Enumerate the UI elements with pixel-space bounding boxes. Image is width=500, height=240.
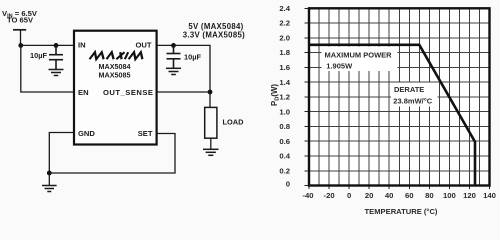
chart x-axis ticks	[309, 186, 490, 190]
svg-text:EN: EN	[78, 88, 89, 97]
svg-text:TEMPERATURE (°C): TEMPERATURE (°C)	[365, 207, 438, 216]
node output capacitor junction	[171, 43, 176, 48]
svg-text:0: 0	[286, 179, 290, 188]
svg-text:80: 80	[425, 191, 434, 200]
x-axis tick labels	[302, 191, 495, 200]
svg-text:DERATE: DERATE	[394, 85, 424, 94]
svg-text:GND: GND	[78, 129, 95, 138]
svg-text:20: 20	[365, 191, 374, 200]
capacitor C2 10uF	[167, 45, 181, 67]
wire to load resistor	[209, 92, 211, 107]
svg-text:2.0: 2.0	[279, 33, 290, 42]
svg-text:120: 120	[463, 191, 476, 200]
wire VIN stub	[20, 30, 22, 46]
wire OUT_SENSE	[157, 91, 210, 93]
svg-text:10µF: 10µF	[30, 51, 47, 60]
svg-text:40: 40	[385, 191, 394, 200]
svg-text:0: 0	[347, 191, 351, 200]
svg-text:SET: SET	[138, 129, 153, 138]
capacitor C1 10uF	[49, 45, 63, 69]
wire load to ground	[210, 138, 212, 149]
svg-text:3.3V (MAX5085): 3.3V (MAX5085)	[183, 30, 245, 39]
svg-text:60: 60	[405, 191, 414, 200]
svg-text:1.2: 1.2	[279, 93, 290, 102]
curve power derating	[309, 45, 475, 186]
terminal VIN T-bar	[13, 29, 26, 31]
chart y-axis ticks	[305, 8, 310, 185]
chart border frame	[309, 8, 490, 185]
node input capacitor junction	[54, 43, 59, 48]
svg-text:MAXIMUM POWER: MAXIMUM POWER	[325, 51, 393, 60]
svg-text:PD(W): PD(W)	[270, 84, 280, 106]
net label VIN = 6.5V TO 65V	[2, 9, 38, 25]
svg-text:2.2: 2.2	[279, 19, 290, 28]
svg-text:1.6: 1.6	[279, 63, 290, 72]
svg-text:0.6: 0.6	[279, 137, 290, 146]
net label 5V / 3.3V outputs	[183, 22, 245, 39]
wire OUT to load node	[157, 45, 210, 92]
svg-text:-40: -40	[302, 191, 313, 200]
y-axis tick labels	[279, 4, 290, 188]
annotation background MAXIMUM POWER	[322, 47, 398, 72]
wire SET to ground node	[49, 134, 175, 174]
ground load	[203, 149, 219, 155]
svg-text:OUT_SENSE: OUT_SENSE	[103, 88, 154, 97]
chart plot area background	[309, 8, 490, 185]
svg-text:IN: IN	[78, 41, 86, 50]
annotation background DERATE	[391, 83, 438, 107]
node VIN junction	[18, 43, 23, 48]
node ground junction	[47, 171, 52, 176]
ground input capacitor	[49, 70, 64, 76]
svg-text:-20: -20	[324, 191, 335, 200]
svg-text:1.4: 1.4	[279, 78, 290, 87]
svg-text:100: 100	[443, 191, 456, 200]
wire VIN to IN pin	[21, 44, 73, 46]
svg-text:1.0: 1.0	[279, 107, 290, 116]
svg-text:1.8: 1.8	[279, 48, 290, 57]
label MAXIMUM POWER 1.905W	[325, 51, 393, 71]
svg-text:LOAD: LOAD	[223, 118, 245, 127]
logo MAXIM	[90, 52, 144, 59]
svg-text:10µF: 10µF	[184, 53, 201, 62]
resistor LOAD	[205, 107, 217, 138]
ground output capacitor	[166, 68, 181, 74]
svg-text:0.4: 0.4	[279, 152, 290, 161]
svg-text:23.8mW/°C: 23.8mW/°C	[393, 97, 432, 106]
IC U1 MAX5084/MAX5085 body	[74, 31, 157, 145]
svg-text:140: 140	[483, 191, 496, 200]
svg-text:0.8: 0.8	[279, 122, 290, 131]
ground main	[42, 186, 57, 192]
chart gridlines	[309, 8, 490, 185]
wire VIN to EN pin	[21, 45, 73, 92]
svg-text:MAX5085: MAX5085	[99, 70, 131, 79]
svg-text:OUT: OUT	[135, 41, 151, 50]
wire GND pin to ground node	[49, 133, 74, 174]
node OUT_SENSE junction	[208, 90, 213, 95]
svg-text:TO 65V: TO 65V	[7, 16, 34, 25]
label DERATE 23.8mW/degC	[393, 85, 432, 106]
svg-text:2.4: 2.4	[279, 4, 290, 13]
svg-text:1.905W: 1.905W	[326, 62, 353, 71]
svg-text:0.2: 0.2	[279, 166, 290, 175]
wire ground stub	[48, 173, 50, 185]
